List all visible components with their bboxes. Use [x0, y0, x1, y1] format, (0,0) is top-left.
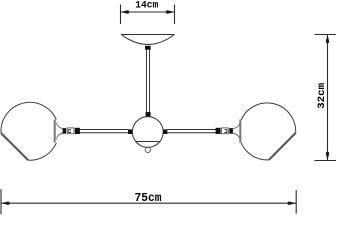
svg-text:75cm: 75cm: [135, 191, 162, 205]
svg-text:32cm: 32cm: [316, 83, 328, 109]
svg-text:14cm: 14cm: [135, 0, 158, 11]
